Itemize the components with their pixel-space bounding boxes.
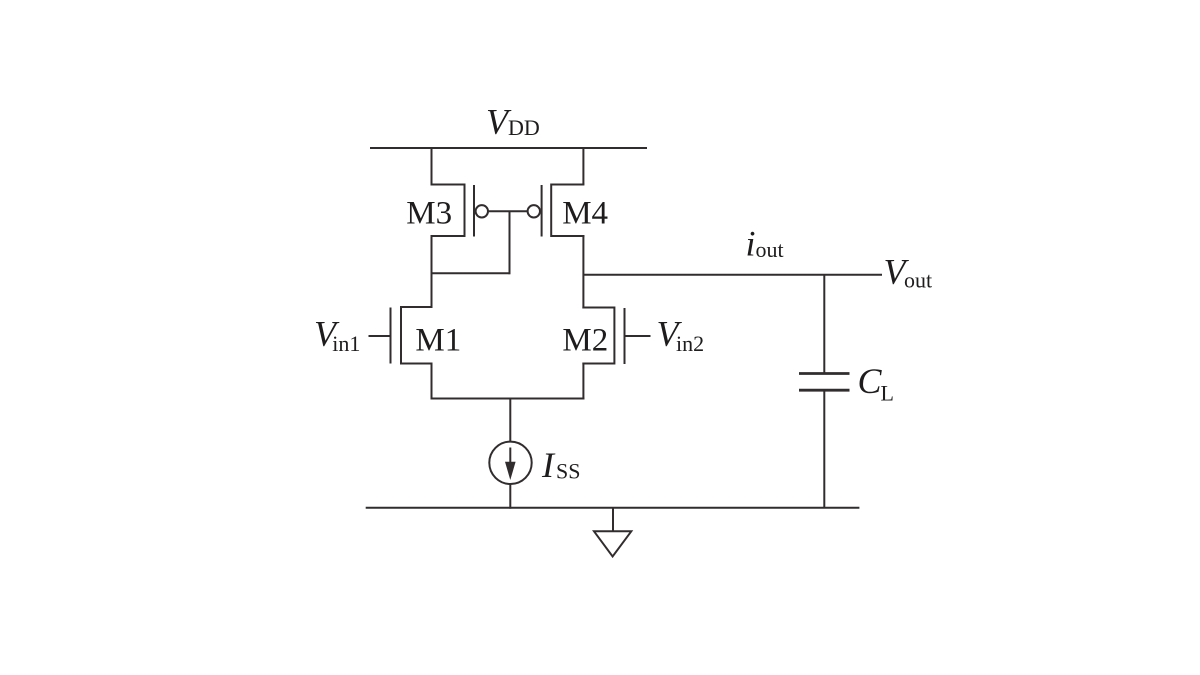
wire M4 source to VDD (582, 147, 584, 185)
svg-text:M2: M2 (562, 322, 608, 358)
wire ground stub (612, 508, 614, 532)
svg-text:out: out (756, 237, 784, 262)
label Vin2 (657, 314, 705, 356)
label ISS (541, 445, 580, 485)
capacitor CL bottom plate (799, 389, 850, 392)
wire common source horizontal (431, 398, 585, 400)
svg-text:I: I (541, 445, 556, 485)
transistor M1 channel (400, 306, 402, 365)
transistor M4 gate bubble (528, 205, 540, 217)
svg-text:L: L (881, 381, 894, 406)
wire ground rail (366, 507, 860, 509)
transistor M4 source stub (551, 184, 584, 186)
transistor M2 channel (613, 307, 615, 365)
transistor M1 drain stub (401, 306, 433, 308)
wire VDD rail (370, 147, 647, 149)
svg-text:in2: in2 (676, 331, 704, 356)
transistor M4 channel (550, 184, 552, 238)
label VDD (486, 102, 540, 142)
transistor M3 source stub (431, 184, 465, 186)
svg-text:i: i (746, 224, 756, 264)
label Vout (884, 251, 933, 292)
wire output horizontal to Vout (583, 274, 882, 276)
transistor M3 gate bar (473, 185, 475, 237)
transistor M4 drain stub (551, 235, 584, 237)
wire gate connection M3-M4 (488, 210, 528, 212)
svg-text:out: out (904, 268, 932, 293)
wire M1 gate lead Vin1 (369, 335, 391, 337)
capacitor CL top plate (799, 372, 850, 375)
wire capacitor to ground rail (823, 390, 825, 508)
transistor M1 gate bar (390, 308, 392, 364)
transistor M2 source stub (582, 363, 614, 365)
label Vin1 (314, 314, 360, 356)
wire left branch M3 drain to M1 drain (431, 235, 433, 308)
svg-text:M1: M1 (415, 322, 461, 358)
wire right branch M4 drain to M2 drain (582, 235, 584, 309)
wire mirror gate vertical (509, 211, 511, 274)
current source ISS circle (489, 442, 531, 484)
ground symbol triangle (594, 531, 631, 556)
transistor M2 drain stub (582, 307, 614, 309)
wire M2 source down (582, 363, 584, 400)
svg-text:C: C (858, 361, 883, 401)
current source ISS arrow shaft (509, 448, 511, 465)
svg-text:M3: M3 (406, 196, 452, 232)
wire M2 gate lead Vin2 (625, 335, 651, 337)
transistor M3 drain stub (431, 235, 465, 237)
svg-text:DD: DD (508, 115, 540, 140)
wire diode connection horizontal (432, 272, 510, 274)
current source ISS arrowhead (505, 462, 516, 480)
transistor M1 source stub (401, 363, 433, 365)
transistor M2 gate bar (624, 308, 626, 364)
svg-text:M4: M4 (562, 196, 608, 232)
label CL (858, 361, 894, 406)
wire tail down to current source (509, 399, 511, 443)
label iout (746, 224, 784, 264)
wire M3 source to VDD (431, 147, 433, 185)
transistor M4 gate bar (541, 185, 543, 237)
transistor M3 gate bubble (476, 205, 488, 217)
svg-text:SS: SS (556, 459, 580, 484)
transistor M3 channel (464, 184, 466, 238)
node output junction (823, 275, 825, 374)
svg-text:in1: in1 (332, 331, 360, 356)
wire M1 source down (431, 363, 433, 400)
wire current source to ground rail (509, 484, 511, 509)
